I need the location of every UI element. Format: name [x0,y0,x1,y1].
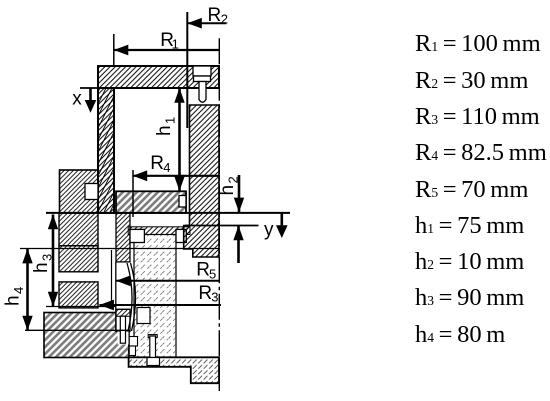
part: left block lower [59,282,98,308]
label h3 (rotated) [31,254,55,273]
svg-text:R: R [150,153,164,174]
seal groove right [176,229,186,242]
svg-text:4: 4 [11,287,26,294]
reference line y=213 [46,212,290,214]
axis y indicator [276,214,288,239]
spring arc (lens element) [127,263,136,331]
part: bearing column (dashed hatch) [134,235,176,358]
bolt B2 shank (bottom) [148,335,157,358]
keyway notch in disc [179,196,186,208]
part: left block mid [59,213,98,246]
bolt B1 head [194,76,211,82]
label R4 [150,153,170,175]
svg-text:4: 4 [163,160,170,175]
part: base flange [129,357,219,383]
x datum line [80,87,114,89]
dimension h2 lower arrow [233,226,243,263]
dimension h3 [48,215,58,307]
label x [72,89,82,110]
svg-text:h: h [31,262,52,273]
part: left block upper [60,170,99,213]
extension line R2 vertical [186,12,188,128]
dimension R3 [99,300,221,311]
svg-text:2: 2 [221,11,228,26]
label R2 [208,5,229,26]
reference line y=248.5 [20,248,220,250]
bolt recess in top slab [193,66,211,76]
bolt B2 head [147,358,160,366]
bolt B1 shank [199,82,206,103]
seal groove left [130,229,144,242]
extension line R1 left [113,34,115,66]
svg-text:R: R [208,5,222,26]
part: disc flange [116,191,186,213]
label R1 [160,30,179,52]
part: bell cover (top slab + left wall) [98,66,219,213]
extension line R4 [132,170,134,217]
axis x indicator [85,88,97,113]
dimension R5 [116,275,220,286]
part: foundation slab (gray hatch) [44,313,129,358]
svg-text:y: y [264,220,274,241]
groove mid bearing [137,308,150,324]
label h4 (rotated) [3,287,27,306]
label R3 [198,283,218,305]
svg-text:h: h [217,185,238,196]
dimension R4 [133,170,220,181]
svg-text:R: R [198,283,212,304]
axis centerline [218,38,220,391]
dimension h4 [22,249,32,331]
reference line y=225.5 [185,225,259,227]
groove low bearing [129,337,138,356]
svg-text:3: 3 [40,254,55,261]
bolt B3 shank (clamp) [120,316,125,343]
dimension h2 upper arrow [234,175,244,212]
label y [264,220,274,241]
dimension R2 [187,18,226,29]
svg-text:1: 1 [172,37,179,52]
dimension R1 [114,45,220,56]
svg-text:x: x [72,89,82,110]
svg-text:5: 5 [209,267,216,282]
svg-text:R: R [196,260,210,281]
dimension h1 [174,88,184,191]
part: sleeve below disc [116,213,130,262]
svg-text:3: 3 [211,290,218,305]
notch in left block upper [85,184,98,200]
label h2 (rotated) [217,176,241,195]
reference line y=306.5 [46,306,116,308]
svg-text:2: 2 [226,176,241,183]
inner ring edge line [111,250,113,306]
part: clamp block bottom [116,309,130,344]
svg-text:1: 1 [163,117,178,124]
part: central shaft column [184,105,219,257]
label h1 (rotated) [154,117,178,136]
svg-text:h: h [154,125,175,136]
reference line y=330.3 [25,329,130,331]
legend text column [414,0,416,1]
svg-text:h: h [3,295,24,306]
part: gland strip [128,227,190,235]
part: left block mid2 [59,246,98,272]
label R5 [196,260,216,282]
sleeve left edge line [115,262,117,332]
